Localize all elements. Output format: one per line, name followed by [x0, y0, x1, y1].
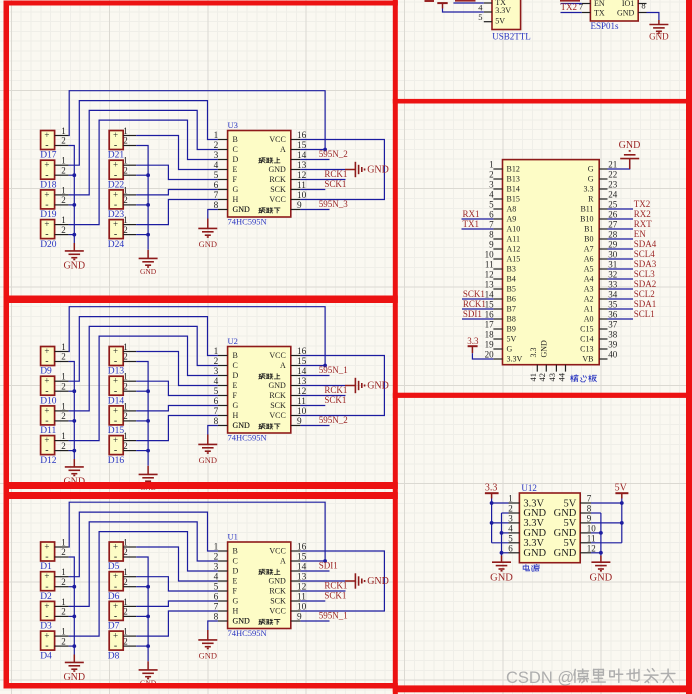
svg-text:GND: GND	[490, 573, 513, 584]
connector D17 (LED header)	[41, 131, 55, 150]
wire net G	[136, 406, 218, 411]
svg-text:+: +	[44, 631, 49, 641]
connector D11 (LED header)	[41, 406, 55, 425]
svg-text:GND: GND	[233, 421, 251, 430]
D4 pin 2	[55, 645, 69, 647]
svg-text:TX2: TX2	[634, 199, 651, 209]
U1 pin 6 (G)	[218, 600, 228, 602]
U3 pin 14	[291, 159, 301, 161]
svg-text:D: D	[233, 567, 239, 576]
svg-text:2: 2	[61, 441, 66, 451]
D12 pin 1	[55, 440, 69, 442]
svg-text:SCK: SCK	[270, 597, 286, 606]
wire pin 15 net A stub	[300, 560, 325, 562]
wire net D	[69, 120, 218, 225]
svg-text:F: F	[233, 175, 238, 184]
svg-text:2: 2	[123, 136, 128, 146]
connector D14 (LED header)	[109, 376, 123, 395]
U12 pin 12 (GND)	[580, 552, 591, 554]
core pin 20 (3.3V)	[493, 358, 502, 360]
shift register U3 74HC595N	[228, 131, 291, 218]
U1 pin 10	[291, 610, 301, 612]
svg-text:D16: D16	[108, 456, 125, 466]
svg-text:G: G	[233, 401, 239, 410]
junction dots GND rail right	[146, 173, 150, 177]
wire net B	[69, 512, 218, 577]
D22 pin 1	[123, 164, 136, 166]
svg-text:C13: C13	[580, 345, 593, 354]
core pin 19 (G)	[493, 348, 502, 350]
svg-text:7: 7	[579, 1, 583, 11]
U1 pin 8 (GND)	[218, 620, 228, 622]
wire pin 8 to ground	[208, 621, 218, 630]
junction dot net A / pin15	[323, 148, 327, 152]
U12 pin 5 (3.3V)	[509, 542, 520, 544]
svg-text:+: +	[44, 130, 49, 140]
svg-text:595N_1: 595N_1	[319, 365, 348, 375]
U2 pin 1 (B)	[218, 355, 228, 357]
D12 pin 2	[55, 450, 69, 452]
svg-text:RCK1: RCK1	[324, 385, 347, 395]
svg-text:29: 29	[608, 240, 618, 250]
svg-text:-: -	[45, 552, 48, 563]
core pin 13 (B5)	[493, 288, 502, 290]
svg-text:2: 2	[61, 547, 66, 557]
junction dots 3.3 rail	[490, 501, 494, 505]
label core board 核心板	[571, 375, 579, 382]
svg-text:21: 21	[608, 160, 617, 170]
D2 pin 2	[55, 586, 69, 588]
wire net G	[136, 601, 218, 606]
svg-text:74HC595N: 74HC595N	[228, 628, 267, 638]
svg-text:GND: GND	[523, 548, 546, 559]
svg-text:1: 1	[61, 627, 66, 637]
U12 pin 10 (GND)	[580, 532, 591, 534]
U3 pin 9	[291, 209, 301, 211]
wires GND rail right joins	[136, 174, 148, 176]
D17 pin 1	[55, 135, 69, 137]
svg-text:B7: B7	[507, 305, 516, 314]
wires GND rail right joins	[136, 586, 148, 588]
U2 pin 4 (E)	[218, 385, 228, 387]
D5 pin 2	[123, 556, 136, 558]
core pin 31 (A5)	[599, 268, 607, 270]
wires GND rail left joins	[69, 390, 75, 392]
U2 pin 12	[291, 395, 301, 397]
wire 3.3 to pin 20	[472, 353, 493, 359]
D1 pin 2	[55, 556, 69, 558]
core pin 32 (A4)	[599, 278, 607, 280]
svg-text:1: 1	[123, 431, 128, 441]
svg-text:SDI1: SDI1	[319, 561, 338, 571]
wire net RX2 (pin 26)	[608, 218, 634, 220]
D7 pin 2	[123, 615, 136, 617]
connector D21 (LED header)	[109, 131, 123, 150]
svg-text:F: F	[233, 391, 238, 400]
wire pin 15 net A stub	[300, 149, 325, 151]
wires 3.3 rail branches	[492, 502, 509, 504]
ground symbol GND (ESP01s)	[658, 20, 660, 24]
U3 pin 3 (D)	[218, 159, 228, 161]
svg-text:1: 1	[123, 537, 128, 547]
svg-text:U3: U3	[228, 120, 238, 130]
D10 pin 1	[55, 380, 69, 382]
wire net H	[136, 416, 218, 441]
svg-text:16: 16	[485, 310, 495, 320]
svg-text:A9: A9	[507, 215, 517, 224]
svg-text:33: 33	[608, 280, 618, 290]
svg-text:B9: B9	[507, 325, 516, 334]
svg-text:1: 1	[61, 342, 66, 352]
svg-text:1: 1	[61, 567, 66, 577]
wire net 595N_1 (pin 14)	[300, 375, 329, 377]
svg-text:20: 20	[485, 350, 495, 360]
wire pin 13 to GND	[300, 169, 345, 171]
D3 pin 1	[55, 605, 69, 607]
ground symbol GND (right rail)	[147, 466, 149, 474]
svg-text:+: +	[113, 405, 118, 415]
ground symbol GND (sideways)	[345, 580, 355, 582]
svg-text:+: +	[44, 376, 49, 386]
svg-text:D20: D20	[40, 240, 57, 250]
svg-text:SDA1: SDA1	[634, 299, 657, 309]
svg-text:GND: GND	[268, 165, 286, 174]
ground symbol GND (left rail)	[73, 459, 75, 467]
U12 pin 8 (GND)	[580, 512, 591, 514]
svg-text:G: G	[233, 185, 239, 194]
core pin 1 (B12)	[493, 168, 502, 170]
svg-text:-: -	[45, 445, 48, 456]
svg-text:SCK1: SCK1	[324, 179, 346, 189]
svg-text:GND: GND	[199, 651, 217, 661]
svg-text:E: E	[233, 165, 238, 174]
svg-text:GND: GND	[63, 672, 85, 683]
U12 pin 7 (5V)	[580, 502, 591, 504]
svg-text:5: 5	[478, 12, 482, 22]
wire pin 21 to GND	[608, 159, 630, 169]
U1 pin 13	[291, 580, 301, 582]
svg-text:R: R	[588, 195, 594, 204]
svg-text:12: 12	[485, 270, 494, 280]
svg-text:A4: A4	[584, 275, 594, 284]
svg-text:5V: 5V	[615, 482, 628, 493]
D4 pin 1	[55, 635, 69, 637]
connector D10 (LED header)	[41, 376, 55, 395]
svg-text:32: 32	[608, 270, 617, 280]
core pin 34 (A2)	[599, 298, 607, 300]
wire TX net	[453, 2, 483, 4]
ground symbol GND (core, above)	[629, 150, 631, 152]
svg-text:GND: GND	[233, 205, 251, 214]
svg-text:9: 9	[587, 514, 592, 524]
wire net RCK1 (pin 12)	[300, 179, 345, 181]
svg-text:VCC: VCC	[269, 411, 285, 420]
wire net SDA3 (pin 31)	[608, 268, 634, 270]
svg-text:VCC: VCC	[269, 135, 285, 144]
svg-text:H: H	[233, 195, 239, 204]
wire net 595N_2 (pin 14)	[300, 159, 329, 161]
wire net 595N_1 (pin 9)	[300, 620, 329, 622]
svg-text:3.3: 3.3	[584, 185, 594, 194]
junction dots GND rail right	[599, 531, 603, 535]
svg-text:1: 1	[123, 567, 128, 577]
svg-text:-: -	[114, 552, 117, 563]
core pin 7 (A10)	[493, 228, 502, 230]
ground symbol GND (power left)	[501, 556, 503, 562]
wire GND rail left column	[69, 362, 75, 460]
D24 pin 1	[123, 224, 136, 226]
svg-text:1: 1	[123, 126, 128, 136]
svg-text:VCC: VCC	[269, 607, 285, 616]
svg-text:A0: A0	[584, 315, 594, 324]
svg-text:-: -	[45, 611, 48, 622]
D23 pin 1	[123, 194, 136, 196]
junction dots GND rail left	[72, 389, 76, 393]
svg-text:RCK1: RCK1	[324, 581, 347, 591]
svg-text:+: +	[44, 219, 49, 229]
wire pin 13 to GND	[300, 580, 345, 582]
svg-text:RCK: RCK	[269, 391, 286, 400]
wire net RCK1 (pin 12)	[300, 395, 345, 397]
svg-text:U2: U2	[228, 336, 238, 346]
svg-text:+: +	[113, 189, 118, 199]
svg-text:-: -	[45, 416, 48, 427]
svg-text:B13: B13	[507, 175, 520, 184]
connector D20 (LED header)	[41, 220, 55, 239]
U3 pin 10	[291, 199, 301, 201]
junction dot net A / pin15	[323, 559, 327, 563]
junction dots 5V rail	[620, 501, 624, 505]
D20 pin 1	[55, 224, 69, 226]
wire net F	[136, 165, 218, 179]
svg-text:GND: GND	[199, 239, 217, 249]
junction dots GND rail left	[500, 531, 504, 535]
svg-text:A: A	[280, 361, 286, 370]
svg-text:2: 2	[61, 636, 66, 646]
svg-text:B6: B6	[507, 295, 516, 304]
svg-text:1: 1	[123, 156, 128, 166]
svg-text:GND: GND	[367, 164, 389, 175]
U2 pin 3 (D)	[218, 375, 228, 377]
svg-text:11: 11	[485, 260, 494, 270]
D6 pin 2	[123, 586, 136, 588]
svg-text:GND: GND	[619, 140, 641, 151]
svg-text:GND: GND	[199, 455, 217, 465]
svg-text:GND: GND	[367, 380, 389, 391]
connector D4 (LED header)	[41, 631, 55, 650]
annotation box borders (red)	[4, 1, 398, 6]
svg-text:2: 2	[61, 352, 66, 362]
U12 pin 1 (3.3V)	[509, 502, 520, 504]
svg-text:B: B	[233, 351, 238, 360]
U1 pin 15	[291, 560, 301, 562]
svg-text:1: 1	[61, 185, 66, 195]
svg-text:-: -	[114, 356, 117, 367]
core pin 41 (bottom)	[536, 365, 538, 372]
wire net E	[136, 352, 218, 386]
svg-text:A3: A3	[584, 285, 594, 294]
U1 pin 12	[291, 590, 301, 592]
svg-text:2: 2	[61, 165, 66, 175]
svg-text:2: 2	[123, 547, 128, 557]
svg-text:13: 13	[485, 280, 495, 290]
wire net SCL3 (pin 32)	[608, 278, 634, 280]
svg-text:D24: D24	[108, 240, 125, 250]
net label fragment (cut)	[455, 0, 476, 2]
svg-text:B: B	[233, 547, 238, 556]
D19 pin 2	[55, 204, 69, 206]
svg-text:17: 17	[485, 320, 495, 330]
U1 pin 9	[291, 620, 301, 622]
svg-text:SDI1: SDI1	[463, 309, 482, 319]
junction dots GND rail left	[72, 173, 76, 177]
svg-text:24: 24	[608, 190, 618, 200]
svg-text:6: 6	[508, 543, 513, 553]
svg-text:595N_1: 595N_1	[319, 611, 348, 621]
D21 pin 1	[123, 135, 136, 137]
connector D5 (LED header)	[109, 542, 123, 561]
U1 pin 5 (F)	[218, 590, 228, 592]
core pin 8 (A11)	[493, 238, 502, 240]
wire pin 8 to ground	[208, 210, 218, 219]
svg-text:VCC: VCC	[269, 351, 285, 360]
svg-text:+: +	[44, 541, 49, 551]
svg-text:-: -	[45, 356, 48, 367]
wire D-A bus (net A)	[69, 91, 326, 150]
svg-text:EN: EN	[594, 0, 605, 8]
core pin 37 (C15)	[599, 328, 607, 330]
svg-text:CSDN @: CSDN @	[506, 669, 574, 687]
svg-text:VCC: VCC	[269, 547, 285, 556]
D21 pin 2	[123, 145, 136, 147]
D7 pin 1	[123, 605, 136, 607]
svg-text:+: +	[44, 160, 49, 170]
svg-text:26: 26	[608, 210, 618, 220]
connector D3 (LED header)	[41, 601, 55, 620]
U1 pin name cascade-up (级联上)	[259, 569, 265, 574]
svg-text:-: -	[114, 386, 117, 397]
svg-text:42: 42	[537, 373, 547, 382]
svg-text:2: 2	[123, 607, 128, 617]
svg-text:1: 1	[123, 372, 128, 382]
wire net G	[136, 190, 218, 195]
svg-text:38: 38	[608, 330, 618, 340]
wire pin 15 net A stub	[300, 365, 325, 367]
svg-text:+: +	[44, 189, 49, 199]
wire net SDA2 (pin 33)	[608, 288, 634, 290]
U2 pin 15	[291, 365, 301, 367]
wire pin 8 to GND	[647, 13, 659, 21]
svg-text:3.3: 3.3	[529, 348, 538, 358]
core pin 16 (B8)	[493, 318, 502, 320]
wire net RX1 (pin 6)	[462, 218, 494, 220]
core pin 27 (B1)	[599, 228, 607, 230]
svg-text:USB2TTL: USB2TTL	[492, 31, 531, 41]
D16 pin 2	[123, 450, 136, 452]
svg-text:6: 6	[489, 210, 494, 220]
shift register U1 74HC595N	[228, 542, 291, 629]
D22 pin 2	[123, 174, 136, 176]
D9 pin 2	[55, 361, 69, 363]
svg-text:-: -	[45, 200, 48, 211]
U12 pin 4 (GND)	[509, 532, 520, 534]
connector D7 (LED header)	[109, 601, 123, 620]
U1 pin 4 (E)	[218, 580, 228, 582]
U2 pin 2 (C)	[218, 365, 228, 367]
svg-text:E: E	[233, 577, 238, 586]
svg-text:GND: GND	[554, 548, 577, 559]
svg-text:10: 10	[485, 250, 495, 260]
svg-text:23: 23	[608, 180, 618, 190]
svg-text:35: 35	[608, 300, 618, 310]
svg-text:19: 19	[485, 340, 495, 350]
svg-text:SCK1: SCK1	[463, 289, 485, 299]
svg-text:B11: B11	[580, 205, 593, 214]
svg-text:GND: GND	[268, 381, 286, 390]
wire net C	[69, 110, 218, 194]
U3 pin 13	[291, 169, 301, 171]
wire GND rail left column	[69, 146, 75, 244]
U3 pin 11	[291, 189, 301, 191]
svg-text:+: +	[113, 631, 118, 641]
U3 pin 4 (E)	[218, 169, 228, 171]
svg-text:B15: B15	[507, 195, 520, 204]
U3 pin 16	[291, 139, 301, 141]
core pin 42 (bottom)	[545, 365, 547, 372]
wire net RCK1 (pin 12)	[300, 590, 345, 592]
module core board (核心板) 40-pin	[503, 160, 600, 365]
svg-text:TX1: TX1	[463, 219, 480, 229]
svg-text:2: 2	[123, 195, 128, 205]
ground symbol GND (power right)	[600, 556, 602, 562]
svg-text:4: 4	[489, 190, 494, 200]
svg-text:SCK: SCK	[270, 401, 286, 410]
svg-text:TX2: TX2	[561, 2, 578, 12]
core pin 2 (B13)	[493, 178, 502, 180]
svg-text:2: 2	[489, 170, 494, 180]
svg-text:1: 1	[61, 215, 66, 225]
D13 pin 2	[123, 361, 136, 363]
D1 pin 1	[55, 546, 69, 548]
svg-text:G: G	[588, 175, 594, 184]
U3 pin 5 (F)	[218, 179, 228, 181]
U2 pin 16	[291, 355, 301, 357]
D13 pin 1	[123, 351, 136, 353]
core pin 26 (B10)	[599, 218, 607, 220]
svg-text:30: 30	[608, 250, 618, 260]
D19 pin 1	[55, 194, 69, 196]
svg-text:C15: C15	[580, 325, 593, 334]
svg-text:-: -	[114, 200, 117, 211]
svg-text:-: -	[114, 611, 117, 622]
wire 5V rail	[621, 499, 623, 543]
core pin 12 (B4)	[493, 278, 502, 280]
D15 pin 1	[123, 410, 136, 412]
svg-text:1: 1	[61, 372, 66, 382]
connector D13 (LED header)	[109, 347, 123, 366]
svg-text:1: 1	[61, 431, 66, 441]
core pin 29 (A7)	[599, 248, 607, 250]
wire pin16 to pin10 loop	[300, 356, 384, 416]
svg-text:B1: B1	[584, 225, 593, 234]
module USB2TTL (partially cut off)	[492, 0, 521, 30]
svg-text:RXT: RXT	[634, 219, 653, 229]
D15 pin 2	[123, 420, 136, 422]
svg-text:18: 18	[485, 330, 495, 340]
svg-text:1: 1	[61, 126, 66, 136]
connector D6 (LED header)	[109, 572, 123, 591]
wire GND rail left column	[69, 557, 75, 655]
